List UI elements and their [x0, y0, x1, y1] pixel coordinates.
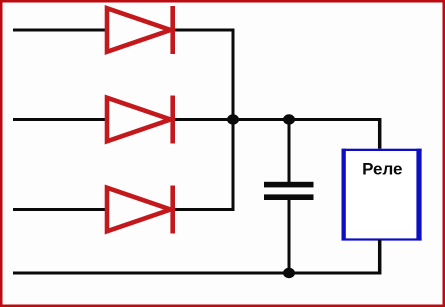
- wire relay bottom lead: [378, 240, 382, 275]
- wire bus vertical: [232, 29, 235, 212]
- wire bottom rail: [13, 272, 381, 275]
- node junction J2 (capacitor top tap): [283, 114, 295, 124]
- svg-text:Реле: Реле: [362, 159, 402, 178]
- wire W2b (D2 cathode to relay corner): [175, 118, 381, 121]
- wire relay top lead: [378, 118, 382, 150]
- diode D3: [107, 186, 173, 234]
- capacitor C1: [264, 120, 314, 275]
- relay K1 box: [342, 149, 422, 241]
- wire W3b (D3 cathode to bus): [175, 208, 235, 211]
- diode D1: [107, 6, 173, 54]
- wire W3a (left lead of D3): [13, 208, 106, 211]
- wire W1a (left lead of D1): [13, 29, 106, 32]
- wire W2a (left lead of D2): [13, 118, 106, 121]
- wire W1b (D1 cathode to bus): [175, 29, 235, 32]
- diode D2: [107, 96, 173, 144]
- node junction J1 (bus / wire2): [227, 114, 239, 124]
- node junction J3 (capacitor bottom tap): [283, 268, 295, 278]
